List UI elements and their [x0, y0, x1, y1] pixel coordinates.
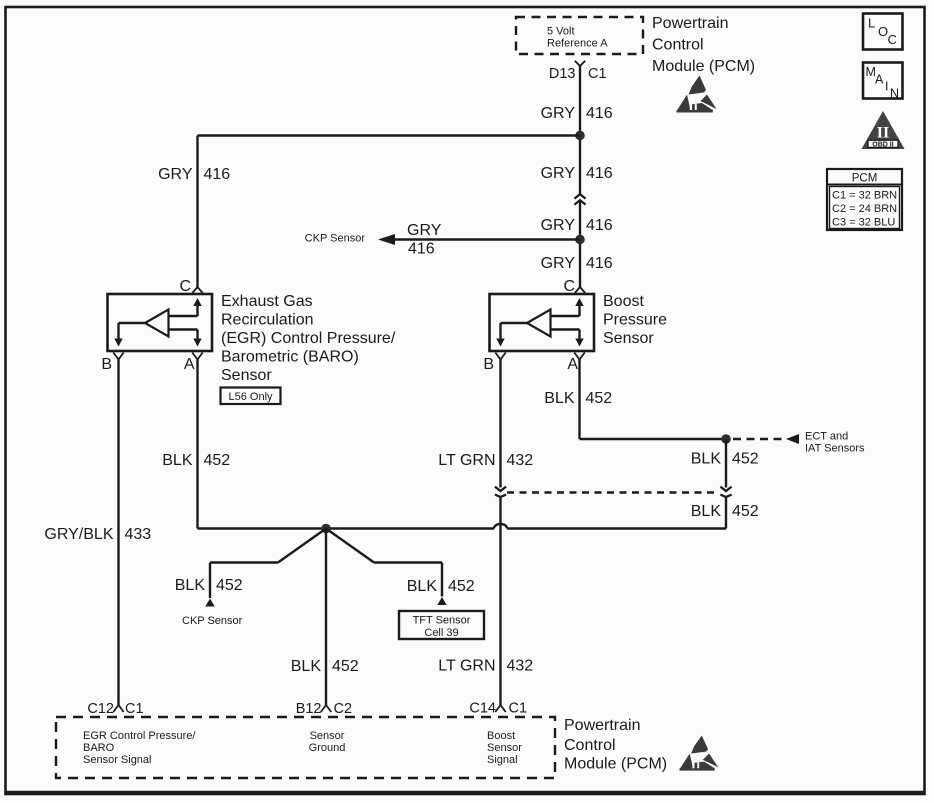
svg-text:C1: C1 — [588, 66, 607, 82]
svg-text:Boost: Boost — [487, 730, 515, 742]
svg-text:452: 452 — [448, 578, 475, 595]
svg-text:C: C — [179, 278, 191, 295]
svg-text:L56 Only: L56 Only — [228, 391, 273, 403]
svg-text:C1: C1 — [509, 701, 528, 717]
svg-text:(EGR) Control Pressure/: (EGR) Control Pressure/ — [221, 330, 396, 347]
svg-text:OBD II: OBD II — [872, 142, 893, 149]
svg-text:LT GRN: LT GRN — [438, 452, 495, 469]
svg-text:Boost: Boost — [603, 293, 644, 310]
svg-text:BLK: BLK — [407, 578, 438, 595]
svg-text:Sensor: Sensor — [603, 330, 654, 347]
svg-text:452: 452 — [732, 451, 759, 468]
svg-text:Module (PCM): Module (PCM) — [564, 756, 667, 773]
svg-text:LT GRN: LT GRN — [438, 658, 495, 675]
svg-text:416: 416 — [586, 105, 613, 122]
svg-text:432: 432 — [507, 452, 534, 469]
svg-text:416: 416 — [408, 241, 435, 258]
svg-text:BLK: BLK — [691, 503, 722, 520]
svg-text:I: I — [885, 80, 888, 94]
svg-text:C2 = 24 BRN: C2 = 24 BRN — [832, 203, 897, 215]
svg-text:Control: Control — [564, 737, 616, 754]
svg-text:EGR Control Pressure/: EGR Control Pressure/ — [83, 730, 196, 742]
svg-text:II: II — [877, 125, 889, 142]
svg-text:TFT Sensor: TFT Sensor — [413, 615, 471, 627]
svg-text:BLK: BLK — [162, 452, 193, 469]
svg-text:ECT and: ECT and — [805, 431, 848, 443]
svg-text:Sensor: Sensor — [221, 367, 272, 384]
svg-text:416: 416 — [586, 255, 613, 272]
svg-text:452: 452 — [586, 390, 613, 407]
svg-text:CKP Sensor: CKP Sensor — [305, 233, 366, 245]
svg-text:A: A — [567, 356, 578, 373]
svg-text:GRY: GRY — [541, 105, 576, 122]
svg-text:Reference A: Reference A — [547, 38, 608, 50]
svg-text:A: A — [875, 73, 884, 87]
svg-text:BLK: BLK — [544, 390, 575, 407]
svg-text:C3 = 32 BLU: C3 = 32 BLU — [832, 217, 895, 229]
svg-text:B: B — [101, 356, 112, 373]
svg-text:452: 452 — [216, 577, 243, 594]
svg-text:CKP Sensor: CKP Sensor — [182, 615, 243, 627]
svg-text:N: N — [890, 87, 899, 101]
svg-text:Sensor: Sensor — [310, 730, 345, 742]
svg-text:Signal: Signal — [487, 754, 518, 766]
svg-text:432: 432 — [507, 658, 534, 675]
svg-text:416: 416 — [586, 165, 613, 182]
svg-text:PCM: PCM — [852, 173, 878, 185]
svg-text:A: A — [184, 356, 195, 373]
svg-text:452: 452 — [204, 452, 231, 469]
svg-text:Ground: Ground — [309, 742, 346, 754]
svg-text:GRY: GRY — [407, 222, 442, 239]
svg-text:Sensor Signal: Sensor Signal — [83, 754, 152, 766]
svg-text:5 Volt: 5 Volt — [547, 26, 575, 38]
svg-text:B: B — [483, 356, 494, 373]
svg-text:GRY: GRY — [541, 217, 576, 234]
svg-text:C12: C12 — [87, 701, 114, 717]
svg-text:Control: Control — [652, 37, 704, 54]
svg-text:Pressure: Pressure — [603, 312, 667, 329]
svg-text:433: 433 — [125, 526, 152, 543]
svg-text:GRY: GRY — [541, 255, 576, 272]
svg-text:BLK: BLK — [691, 451, 722, 468]
svg-text:C: C — [888, 32, 897, 47]
svg-text:BARO: BARO — [83, 742, 115, 754]
svg-text:BLK: BLK — [291, 658, 322, 675]
svg-text:B12: B12 — [296, 701, 322, 717]
svg-text:452: 452 — [732, 503, 759, 520]
svg-text:GRY: GRY — [158, 166, 193, 183]
svg-text:Cell 39: Cell 39 — [424, 627, 458, 639]
svg-text:C2: C2 — [334, 701, 353, 717]
svg-text:416: 416 — [204, 166, 231, 183]
svg-text:BLK: BLK — [175, 577, 206, 594]
svg-text:Exhaust Gas: Exhaust Gas — [221, 293, 313, 310]
svg-text:L: L — [868, 16, 875, 31]
svg-text:GRY: GRY — [541, 165, 576, 182]
svg-text:Powertrain: Powertrain — [564, 717, 640, 734]
svg-text:Powertrain: Powertrain — [652, 15, 728, 32]
svg-text:Sensor: Sensor — [487, 742, 522, 754]
svg-text:GRY/BLK: GRY/BLK — [44, 526, 113, 543]
svg-text:C1: C1 — [125, 701, 144, 717]
svg-text:452: 452 — [332, 658, 359, 675]
svg-text:C14: C14 — [469, 701, 496, 717]
svg-text:IAT Sensors: IAT Sensors — [805, 443, 865, 455]
svg-text:Recirculation: Recirculation — [221, 312, 313, 329]
svg-text:C: C — [563, 278, 575, 295]
svg-text:Barometric (BARO): Barometric (BARO) — [221, 349, 359, 366]
svg-text:416: 416 — [586, 217, 613, 234]
svg-text:C1 = 32 BRN: C1 = 32 BRN — [832, 190, 897, 202]
svg-text:Module (PCM): Module (PCM) — [652, 58, 755, 75]
svg-text:D13: D13 — [549, 66, 576, 82]
